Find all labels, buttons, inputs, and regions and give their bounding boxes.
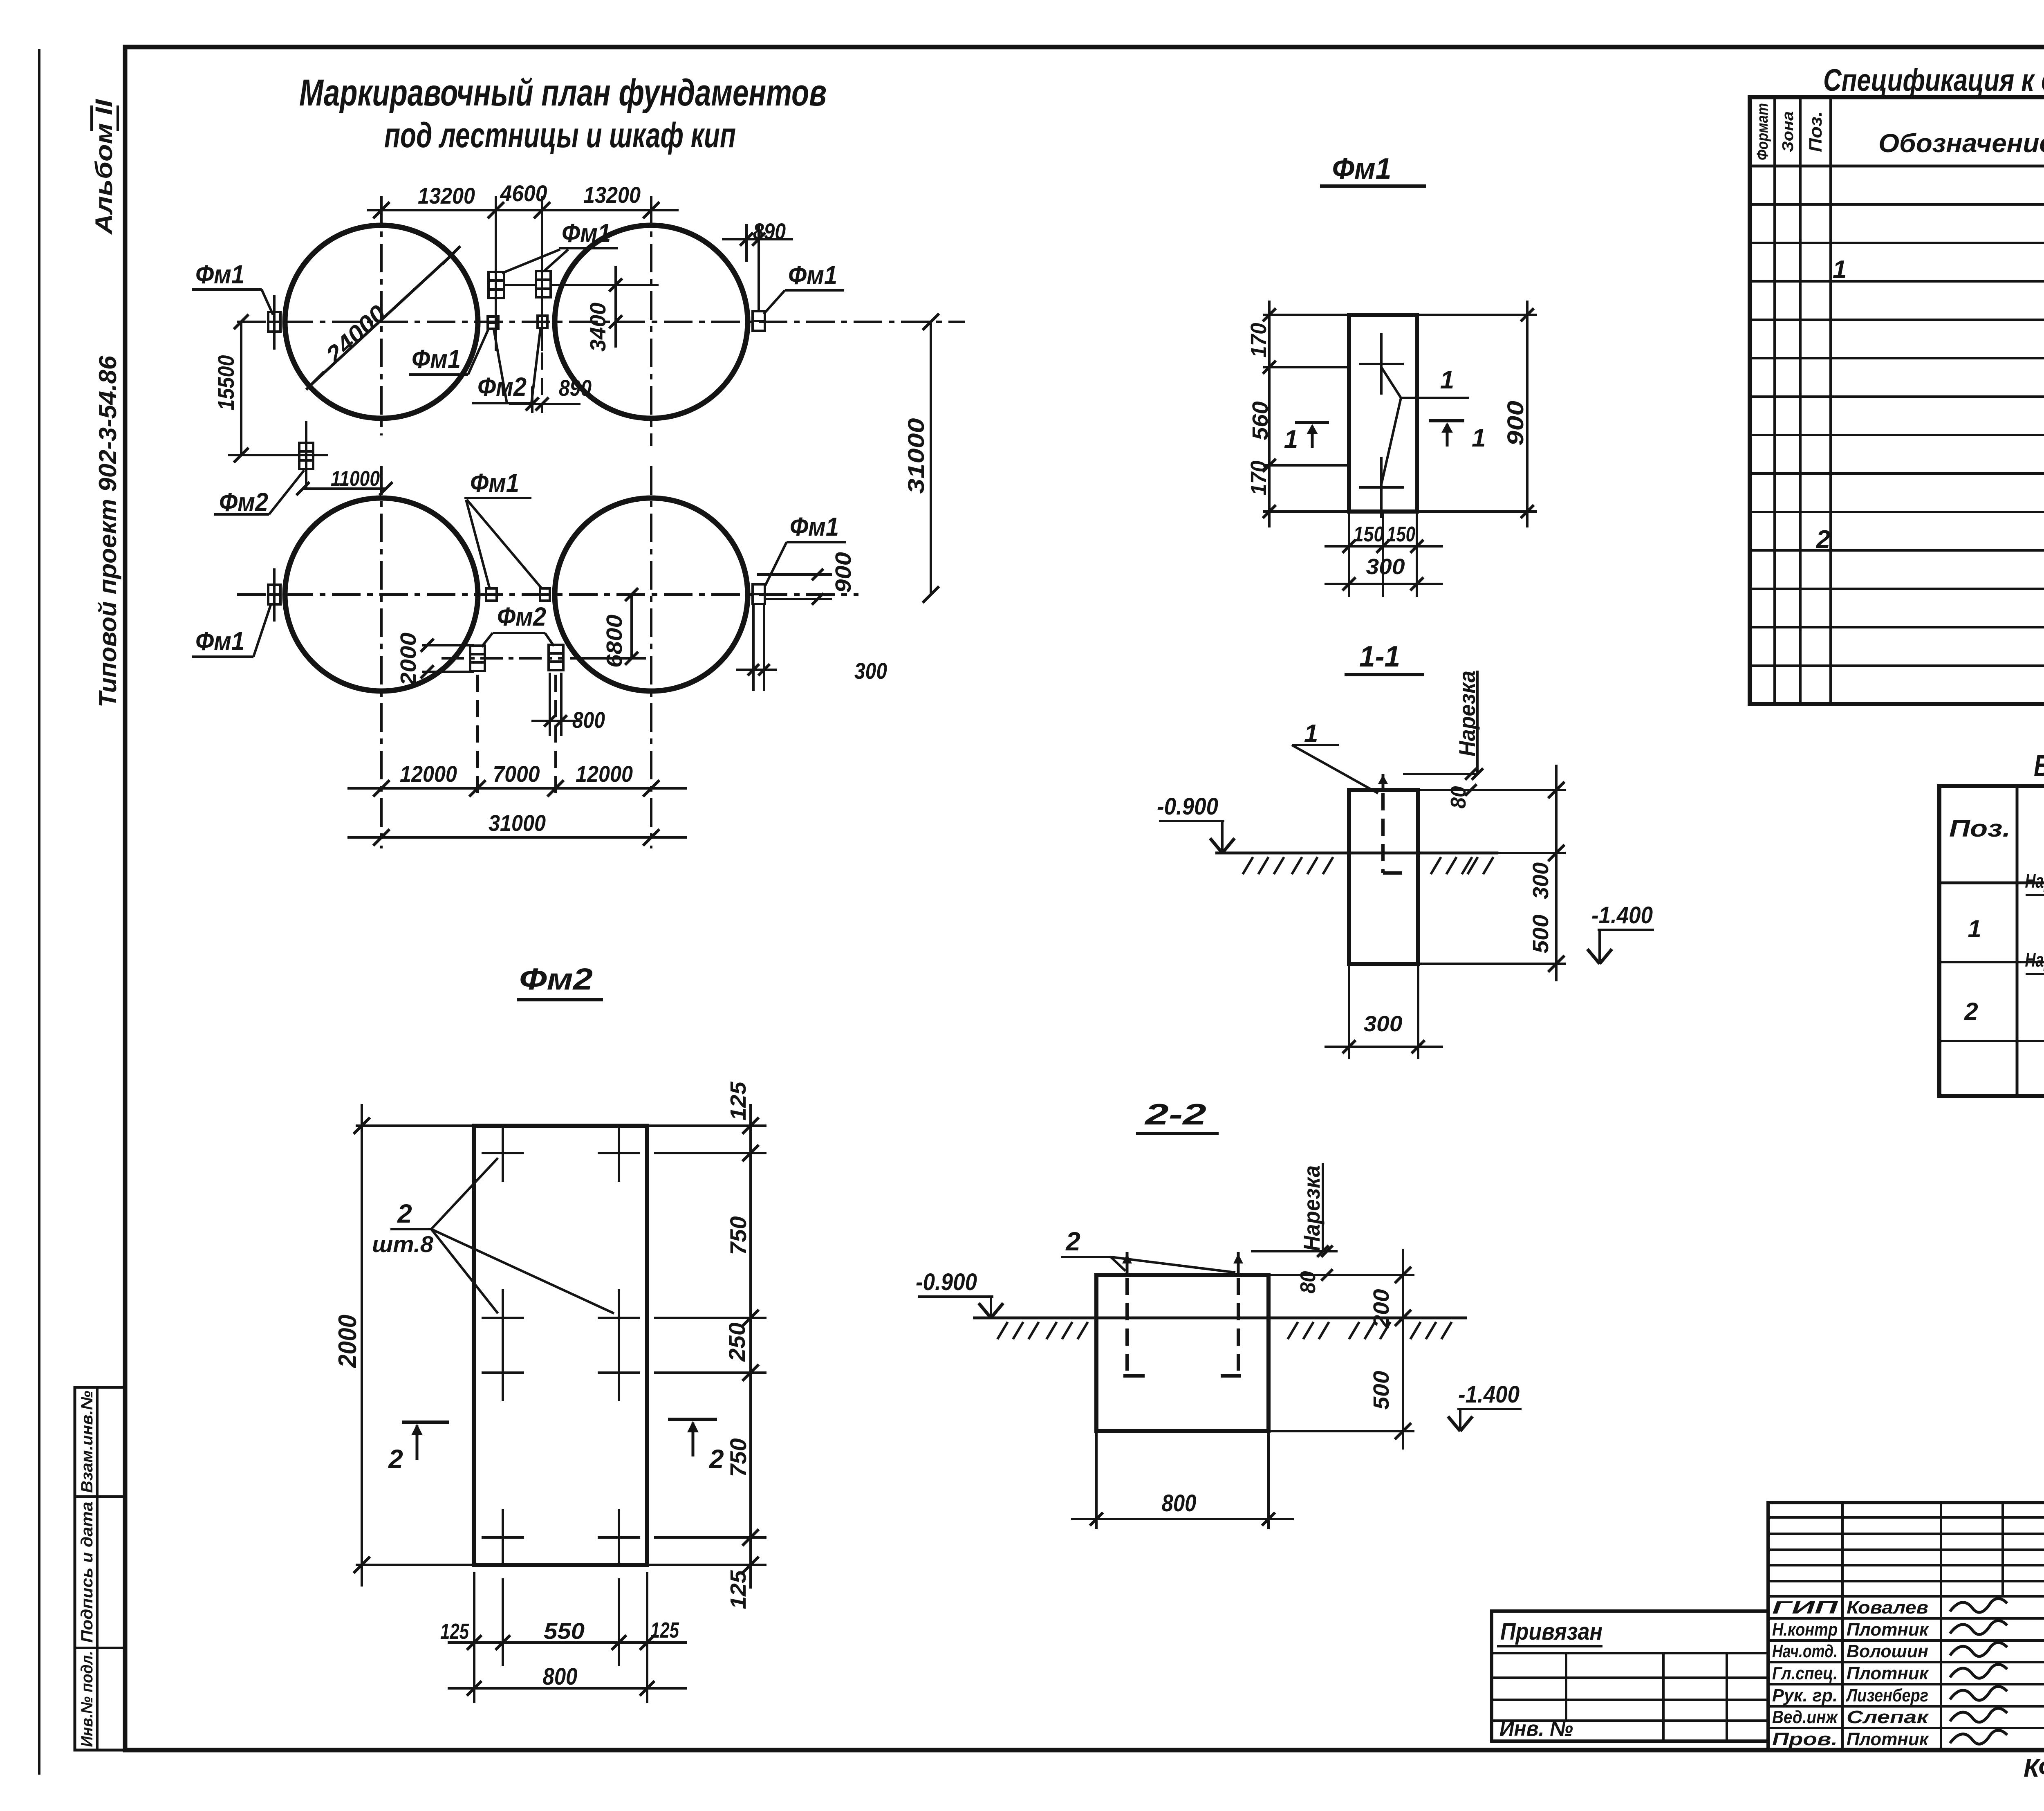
section 1-1 grass left — [1243, 857, 1253, 874]
svg-text:Фм2: Фм2 — [497, 602, 546, 631]
svg-text:Фм2: Фм2 — [219, 487, 268, 517]
svg-text:Нарезка: Нарезка — [1299, 1165, 1325, 1251]
dim 300 sec1 right — [1418, 789, 1566, 791]
signature squiggles — [1950, 1598, 2007, 1612]
svg-text:300: 300 — [1366, 554, 1405, 579]
dim 6800 — [630, 595, 633, 658]
top dim tick b — [488, 202, 504, 218]
spec header Zona — [1780, 111, 1797, 152]
sidebar text Album II — [91, 99, 117, 236]
left stamp row line 1 — [75, 1495, 125, 1498]
svg-text:1-1: 1-1 — [1359, 640, 1400, 673]
vedomost row line 1 — [1939, 961, 2044, 963]
svg-text:Н.контр: Н.контр — [1772, 1620, 1838, 1640]
section 1-1 foundation rect — [1349, 790, 1418, 964]
FM1 dim 170 bottom — [1246, 461, 1271, 496]
foundation block FM1 right edge bottom row — [753, 584, 765, 604]
svg-text:13200: 13200 — [418, 183, 475, 209]
foundation block upper pair right — [536, 271, 551, 297]
dim 890 top-right — [745, 224, 748, 262]
section 1-1 rebar dashed — [1381, 793, 1385, 873]
FM2 bolt cross r3c2 — [598, 1371, 640, 1374]
svg-text:250: 250 — [724, 1323, 750, 1362]
svg-text:900: 900 — [831, 552, 856, 593]
FM1 section mark left — [1295, 421, 1329, 424]
svg-text:Инв.№ подл.: Инв.№ подл. — [78, 1651, 96, 1747]
sidebar text project number — [94, 355, 121, 707]
FM2 dim 125 bottom — [726, 1570, 751, 1609]
section 2-2 rebar left — [1125, 1278, 1129, 1371]
svg-text:2-2: 2-2 — [1144, 1098, 1206, 1131]
svg-text:3400: 3400 — [586, 303, 610, 352]
svg-text:Гл.спец.: Гл.спец. — [1772, 1663, 1838, 1683]
vert guide through left block top — [273, 295, 276, 350]
sig table name rows — [1768, 1617, 2044, 1620]
left stamp row line 2 — [75, 1647, 125, 1649]
svg-text:Зона: Зона — [1780, 111, 1797, 152]
left stamp label Podpis i data — [78, 1502, 96, 1643]
svg-text:800: 800 — [572, 707, 605, 733]
sig table outline — [1768, 1503, 2044, 1750]
svg-text:1: 1 — [1833, 256, 1847, 284]
left stamp label Vzam inv No — [78, 1391, 96, 1493]
spec header Poz — [1806, 111, 1826, 152]
dim 80 sec1 — [1403, 773, 1479, 775]
FM2 ext right — [647, 1124, 766, 1127]
svg-text:Волошин: Волошин — [1847, 1641, 1928, 1661]
left stamp column divider — [96, 1387, 99, 1750]
svg-text:Инв. №: Инв. № — [1499, 1717, 1573, 1741]
svg-text:Подпись и дата: Подпись и дата — [78, 1502, 96, 1643]
svg-text:под лестницы и шкаф кип: под лестницы и шкаф кип — [384, 116, 736, 155]
FM2 bolt cross r3c1 — [482, 1371, 524, 1374]
foundation block FM1 left edge top row — [268, 312, 280, 332]
FM1 bottom ext lines — [1348, 512, 1350, 597]
svg-text:750: 750 — [725, 1438, 751, 1477]
svg-text:800: 800 — [543, 1663, 578, 1690]
bottom dim line 12000 7000 12000 — [347, 787, 687, 790]
svg-text:Плотник: Плотник — [1847, 1663, 1930, 1683]
svg-text:2: 2 — [388, 1444, 403, 1474]
svg-text:15500: 15500 — [213, 355, 239, 411]
svg-text:Фм1: Фм1 — [412, 344, 461, 374]
FM1 bottom dim line 300 — [1325, 583, 1443, 585]
top dim tick d — [643, 202, 659, 218]
top dim ext line b — [495, 196, 497, 351]
foundation block FM1 left edge bottom row — [268, 585, 280, 604]
left stamp outline — [75, 1387, 125, 1750]
section 2-2 underline — [1136, 1132, 1219, 1135]
svg-text:Фм1: Фм1 — [195, 626, 244, 656]
svg-text:2: 2 — [709, 1444, 724, 1474]
dim 2000 — [422, 644, 474, 646]
dim 15500 — [240, 322, 242, 455]
FM1 left dim line — [1268, 301, 1271, 527]
svg-text:Маркиравочный план фундаментов: Маркиравочный план фундаментов — [299, 72, 827, 114]
svg-text:890: 890 — [559, 375, 592, 401]
svg-text:-1.400: -1.400 — [1458, 1381, 1520, 1408]
svg-text:Взам.инв.№: Взам.инв.№ — [78, 1391, 96, 1493]
FM1 dim 560 — [1248, 402, 1273, 440]
FM1 detail title underline — [1320, 184, 1426, 188]
svg-text:2: 2 — [1964, 998, 1978, 1025]
dim 31000 vertical — [930, 322, 932, 595]
FM2 bolt cross r2c1 — [482, 1317, 524, 1319]
dim 500 sec1 right — [1418, 963, 1566, 965]
svg-text:12000: 12000 — [576, 761, 633, 787]
svg-text:1: 1 — [1304, 720, 1318, 748]
section 1-1 rebar top — [1382, 774, 1385, 790]
svg-text:Нач.отд.: Нач.отд. — [1772, 1641, 1838, 1661]
label Narezka 1-1 — [1454, 671, 1480, 756]
svg-text:125: 125 — [726, 1081, 751, 1120]
dim 800 plan — [549, 673, 551, 736]
vedomost header line — [1939, 882, 2044, 884]
FM2 bolt cross r4c1 — [482, 1536, 524, 1539]
top dim tick a — [373, 202, 390, 218]
sidebar text underline II — [90, 105, 93, 131]
FM1 ext lines right — [1417, 314, 1537, 316]
FM1 dim 170 top — [1246, 323, 1271, 358]
top dimension line — [367, 209, 679, 211]
label Narezka 2-2 — [1299, 1165, 1325, 1251]
svg-text:300: 300 — [1529, 862, 1553, 899]
section 2-2 ground line — [973, 1317, 1467, 1320]
diameter line circle top-left — [312, 253, 454, 384]
dim 300 plan — [752, 605, 755, 691]
svg-text:Фм1: Фм1 — [470, 468, 519, 498]
svg-text:-0.900: -0.900 — [1157, 793, 1218, 820]
privyazan col c — [1726, 1653, 1728, 1741]
FM2 plan rectangle — [474, 1126, 647, 1565]
FM2 dim 125 top — [726, 1081, 751, 1120]
sig table name cols — [1841, 1596, 1844, 1750]
FM1 right dim line — [1526, 301, 1529, 527]
vert guide left block bottom — [273, 568, 276, 622]
dashdot between FM2 lower pair — [442, 657, 562, 660]
centerline through upper pair extension — [551, 284, 659, 286]
spec table outline — [1750, 97, 2044, 704]
svg-text:890: 890 — [753, 218, 786, 244]
svg-text:150: 150 — [1354, 523, 1384, 546]
FM1 dim 900 — [1502, 401, 1528, 446]
foundation block axis pair left bottom row — [486, 588, 497, 601]
privyazan col a — [1565, 1653, 1567, 1721]
tank circle top-left — [285, 225, 478, 418]
svg-text:2: 2 — [1065, 1227, 1080, 1256]
dim 200 sec2 — [1269, 1274, 1414, 1276]
left trim line — [38, 49, 40, 1775]
svg-text:Спецификация к схеме расположе: Спецификация к схеме расположения фундам… — [1823, 63, 2044, 98]
svg-text:Фм1: Фм1 — [788, 260, 837, 290]
vert guide through FM2 mid-left block — [305, 421, 307, 489]
svg-text:Поз.: Поз. — [1806, 111, 1826, 152]
FM2 bottom ext — [473, 1572, 475, 1703]
foundation block upper pair left — [489, 272, 504, 298]
diameter label 24000 — [320, 300, 391, 368]
axis centerline bottom row — [237, 593, 858, 596]
bottom dim ext b — [554, 675, 557, 795]
sec1 bottom ext lines — [1348, 964, 1350, 1059]
privyazan row line d — [1492, 1719, 1768, 1722]
privyazan outline — [1492, 1611, 1768, 1741]
FM2 plan title underline — [517, 998, 603, 1001]
FM1 ext lines left — [1263, 314, 1349, 316]
svg-text:Плотник: Плотник — [1847, 1729, 1930, 1749]
svg-text:Ковалев: Ковалев — [1847, 1598, 1928, 1618]
FM2 right dim line — [749, 1104, 752, 1589]
vertical centerline circle bottom-left — [380, 466, 383, 848]
sig table top grid cols — [1841, 1503, 1844, 1596]
sec2 bottom ext lines — [1095, 1431, 1098, 1529]
privyazan row line a — [1492, 1652, 1768, 1654]
section 1-1 underline — [1345, 673, 1424, 676]
vertical centerline circle top-left — [380, 196, 383, 435]
svg-text:Фм2: Фм2 — [519, 962, 593, 996]
dim 3400 — [572, 284, 659, 286]
section 2-2 rebar right — [1237, 1278, 1240, 1371]
foundation block FM2 mid-left — [299, 443, 313, 469]
svg-text:125: 125 — [440, 1619, 469, 1644]
FM2 ext left — [356, 1124, 474, 1127]
sec2 bottom dim 800 — [1071, 1518, 1294, 1520]
privyazan row line c — [1492, 1699, 1768, 1701]
FM2 section mark right — [668, 1418, 717, 1421]
dim 11000 — [303, 487, 386, 490]
svg-text:6800: 6800 — [602, 615, 627, 668]
svg-text:Привязан: Привязан — [1500, 1618, 1602, 1645]
FM1 leader 1 — [1381, 367, 1401, 398]
spec header Format — [1754, 103, 1771, 160]
vedomost row line 2 — [1939, 1040, 2044, 1042]
foundation block FM1 right edge top row — [753, 311, 765, 331]
section 1-1 ground line — [1215, 852, 1498, 855]
bottom dim line 31000 — [347, 836, 687, 839]
svg-text:Вед.инж: Вед.инж — [1772, 1707, 1838, 1727]
axis centerline top row — [237, 321, 965, 323]
foundation block axis pair left top row — [488, 316, 498, 329]
svg-text:1: 1 — [1440, 366, 1454, 394]
sec1 bottom dim 300 — [1325, 1046, 1443, 1048]
svg-text:-1.400: -1.400 — [1591, 902, 1653, 929]
FM2 dim 750 lower — [725, 1438, 751, 1477]
spec table header bottom — [1750, 165, 2044, 168]
svg-text:750: 750 — [725, 1216, 751, 1255]
svg-text:Типовой проект 902-3-54.86: Типовой проект 902-3-54.86 — [94, 355, 121, 707]
svg-text:800: 800 — [1162, 1490, 1197, 1517]
section 2-2 grass left — [997, 1322, 1008, 1339]
svg-text:300: 300 — [854, 658, 887, 684]
svg-text:7000: 7000 — [493, 761, 540, 787]
svg-text:2000: 2000 — [396, 633, 421, 686]
top dim tick c — [534, 202, 550, 218]
tank circle bottom-right — [555, 498, 748, 691]
vedomost column line — [2016, 786, 2019, 1096]
section 1-1 leader 1 — [1292, 745, 1378, 793]
tank circle bottom-left — [285, 498, 478, 691]
svg-text:125: 125 — [726, 1570, 751, 1609]
svg-text:-0.900: -0.900 — [916, 1269, 977, 1295]
vertical centerline circle top-right — [650, 196, 652, 446]
svg-text:Альбом II: Альбом II — [91, 99, 117, 236]
svg-text:12000: 12000 — [400, 761, 457, 787]
FM2 bolt cross r1c2 — [598, 1152, 640, 1154]
FM2 section mark left — [402, 1421, 449, 1424]
dim 900 — [757, 573, 832, 576]
bottom dim ext a — [476, 675, 479, 795]
section 2-2 grass right — [1288, 1322, 1298, 1339]
svg-text:500: 500 — [1369, 1371, 1394, 1410]
svg-text:300: 300 — [1364, 1012, 1403, 1036]
svg-text:Пров.: Пров. — [1772, 1729, 1838, 1749]
vedomost outline — [1939, 786, 2044, 1096]
privyazan row line b — [1492, 1676, 1768, 1679]
svg-text:170: 170 — [1246, 323, 1271, 358]
FM1 bolt cross lower — [1359, 486, 1404, 489]
svg-text:150: 150 — [1387, 523, 1415, 546]
svg-text:Нарезка: Нарезка — [2025, 949, 2044, 971]
FM2 bolt cross r2c2 — [598, 1317, 640, 1319]
svg-text:ГИП: ГИП — [1772, 1598, 1838, 1618]
dashdot between upper pair — [504, 284, 536, 286]
left stamp label Inv No podl — [78, 1651, 96, 1747]
svg-text:Формат: Формат — [1754, 103, 1771, 160]
top dim ext line c — [541, 196, 543, 351]
FM2 dim 2000 — [361, 1104, 363, 1587]
svg-text:Лизенберг: Лизенберг — [1845, 1685, 1928, 1706]
FM2 bottom dim line 800 — [448, 1687, 687, 1690]
svg-text:Фм1: Фм1 — [195, 260, 244, 289]
spec table row lines — [1750, 203, 2044, 206]
svg-text:Нарезка: Нарезка — [2025, 871, 2044, 892]
svg-text:31000: 31000 — [903, 418, 929, 494]
spec table column lines — [1773, 97, 1776, 704]
svg-text:500: 500 — [1529, 915, 1553, 954]
privyazan col b — [1662, 1653, 1665, 1741]
svg-text:Ведомость деталей: Ведомость деталей — [2034, 749, 2044, 783]
foundation block FM2 lower pair left — [470, 646, 485, 671]
svg-text:Фм1: Фм1 — [1332, 153, 1392, 185]
FM2 dim 750 upper — [725, 1216, 751, 1255]
svg-text:Плотник: Плотник — [1847, 1620, 1930, 1640]
svg-text:Фм1: Фм1 — [562, 218, 611, 248]
svg-text:11000: 11000 — [331, 467, 380, 491]
FM2 bolt cross r4c2 — [598, 1536, 640, 1539]
sig table top grid rows — [1768, 1516, 2044, 1519]
vertical centerline circle bottom-right — [650, 466, 652, 848]
FM2 dim 250 — [724, 1323, 750, 1362]
svg-text:Поз.: Поз. — [1949, 815, 2010, 842]
section 2-2 foundation rect — [1096, 1275, 1269, 1431]
svg-text:13200: 13200 — [583, 182, 641, 208]
svg-text:Фм1: Фм1 — [790, 512, 839, 541]
FM2 bolt cross r1c1 — [482, 1152, 524, 1154]
svg-text:1: 1 — [1284, 425, 1298, 453]
dim 890 mid — [541, 327, 543, 413]
svg-text:КФ 9389-01: КФ 9389-01 — [2024, 1754, 2044, 1782]
svg-text:2: 2 — [1816, 525, 1830, 554]
svg-text:Рук. гр.: Рук. гр. — [1772, 1685, 1838, 1706]
FM1 detail rectangle — [1349, 315, 1417, 512]
svg-text:шт.8: шт.8 — [372, 1231, 434, 1257]
foundation block axis pair right bottom row — [540, 588, 550, 601]
svg-text:Обозначение: Обозначение — [1878, 128, 2044, 158]
dim 500 sec2 — [1269, 1430, 1414, 1432]
FM1 bolt cross upper — [1359, 363, 1404, 365]
FM1 bottom dim line 150 150 — [1325, 545, 1443, 548]
dim 80 sec2 — [1251, 1250, 1338, 1252]
svg-text:200: 200 — [1369, 1289, 1394, 1329]
svg-text:560: 560 — [1248, 402, 1273, 440]
foundation block FM2 lower pair right — [549, 645, 563, 670]
svg-text:2: 2 — [397, 1199, 412, 1228]
svg-text:125: 125 — [650, 1618, 679, 1643]
svg-text:1: 1 — [1968, 915, 1981, 943]
foundation block axis pair right top row — [538, 316, 547, 328]
svg-text:170: 170 — [1246, 461, 1271, 496]
svg-text:1: 1 — [1472, 424, 1486, 452]
svg-text:2000: 2000 — [334, 1315, 362, 1368]
svg-text:Слепак: Слепак — [1847, 1707, 1930, 1727]
svg-text:4600: 4600 — [500, 180, 547, 206]
FM1 section mark right — [1429, 419, 1464, 422]
svg-text:Нарезка: Нарезка — [1454, 671, 1480, 756]
FM2 bottom dim line 125 550 125 — [448, 1641, 687, 1644]
section 1-1 grass right — [1431, 857, 1441, 874]
tank circle top-right — [555, 225, 748, 418]
svg-text:900: 900 — [1502, 401, 1528, 446]
svg-text:550: 550 — [544, 1618, 585, 1644]
svg-text:31000: 31000 — [489, 810, 546, 836]
